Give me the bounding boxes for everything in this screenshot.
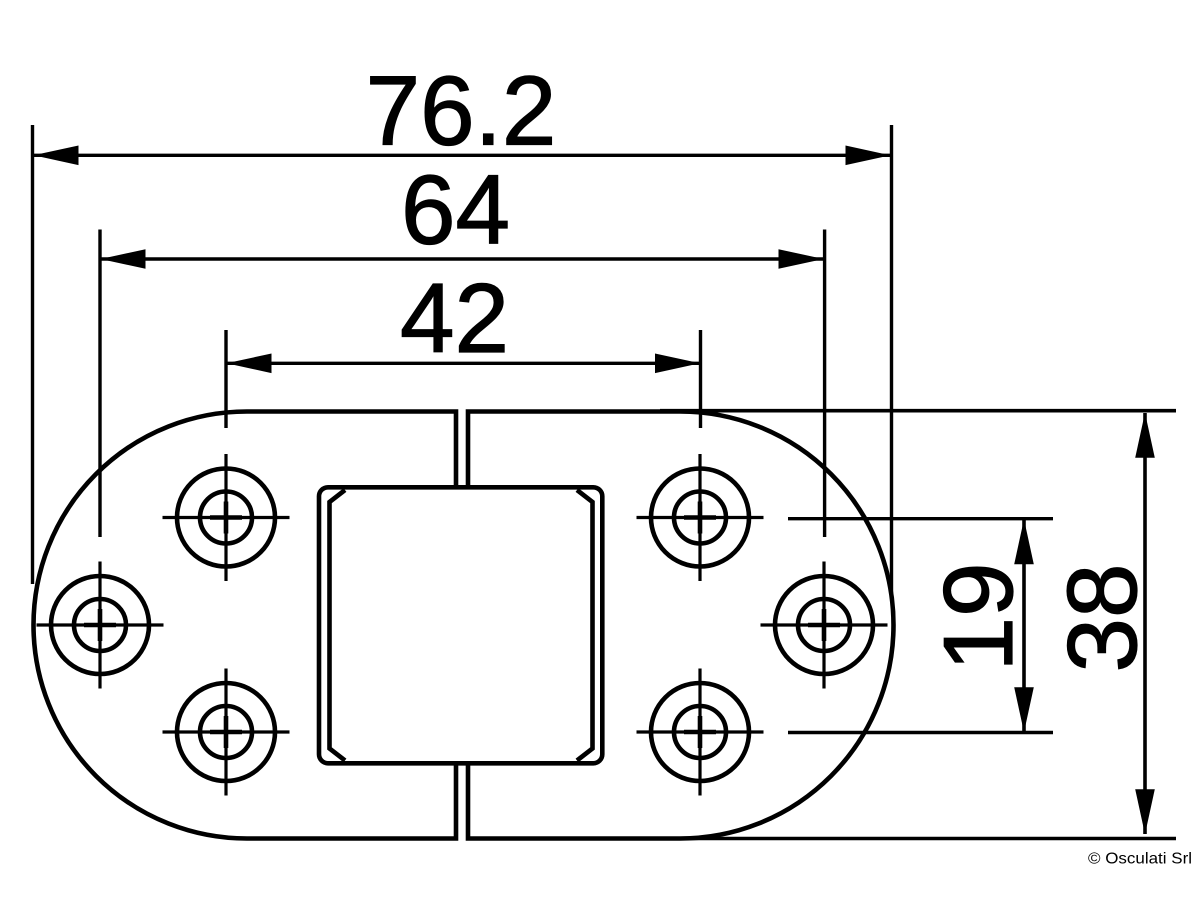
dimension 76.2 arrow right <box>846 146 891 166</box>
hole H4 top-right <box>637 454 764 581</box>
dimension 42 arrow left <box>227 354 272 374</box>
hole H1 top-left <box>163 454 290 581</box>
dimension 64 line <box>101 257 823 260</box>
knuckle cover right inner edge <box>577 490 593 761</box>
dimension 76.2 extension line left <box>31 125 34 584</box>
dimension 64 arrow left <box>101 249 146 269</box>
center knuckle cover square <box>319 487 602 763</box>
extension line bottom edge (38 dim, extends hinge bottom edge right) <box>660 837 1176 841</box>
dimension 64 arrow right <box>779 249 824 269</box>
svg-text:64: 64 <box>401 155 510 265</box>
dimension 19 extension line bottom <box>788 731 1053 734</box>
hinge left leaf outline <box>33 412 456 839</box>
svg-text:42: 42 <box>400 263 509 373</box>
dimension 42 line <box>227 362 700 365</box>
hole H6 bottom-right <box>637 669 764 796</box>
dimension 19 arrow down <box>1014 687 1034 732</box>
svg-text:76.2: 76.2 <box>366 56 557 166</box>
svg-text:© Osculati Srl: © Osculati Srl <box>1088 851 1192 868</box>
dimension 38 arrow down <box>1135 789 1155 834</box>
svg-text:38: 38 <box>1047 563 1157 672</box>
dimension 19 line <box>1022 519 1026 732</box>
dimension 76.2 line <box>34 154 890 157</box>
knuckle cover left inner edge <box>330 490 346 761</box>
hinge right leaf outline <box>468 412 894 839</box>
dimension 19 extension line top <box>788 517 1053 520</box>
dimension 38 line <box>1143 413 1147 834</box>
hole H2 middle-left <box>37 562 164 689</box>
dimension 76.2 arrow left <box>34 146 79 166</box>
hole H5 middle-right <box>761 562 888 689</box>
dimension 19 arrow up <box>1014 519 1034 564</box>
extension line top edge (38 dim, extends hinge top edge right) <box>660 409 1176 413</box>
dimension 64 extension line right <box>823 230 826 538</box>
dimension 42 extension line right <box>699 330 702 428</box>
dimension 42 extension line left <box>224 330 227 428</box>
hole H3 bottom-left <box>163 669 290 796</box>
dimension 76.2 extension line right <box>890 125 893 598</box>
dimension 38 arrow up <box>1135 413 1155 458</box>
dimension 64 extension line left <box>98 230 101 538</box>
svg-text:19: 19 <box>923 562 1033 671</box>
dimension 42 arrow right <box>655 354 700 374</box>
